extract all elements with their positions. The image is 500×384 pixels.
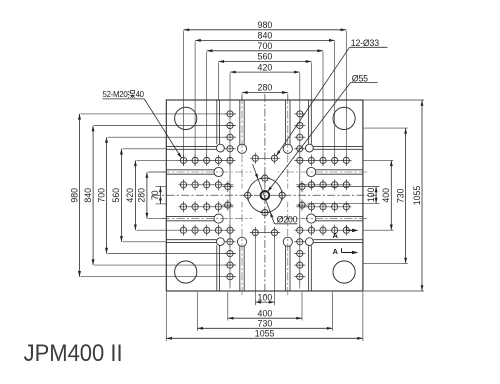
svg-text:A: A (332, 231, 338, 240)
svg-text:280: 280 (137, 188, 147, 203)
row line lower-right (row +3) (294, 229, 351, 231)
callout 12 holes dia 33 (276, 38, 387, 156)
row line mid-lower-left (row +1) (179, 206, 234, 208)
svg-text:40: 40 (136, 90, 145, 99)
dimension 1055 vertical (412, 100, 424, 291)
center hole (dia 55) (261, 191, 270, 200)
callout 52-M20 depth 40 tapped holes (103, 90, 182, 158)
T-slot top-left vertical (237, 96, 246, 189)
platen plate outline (166, 100, 363, 291)
bolt holes column +3 bottom leg (294, 239, 305, 280)
dimension 700 vertical (96, 137, 108, 253)
dimension 400 vertical (381, 160, 393, 230)
row line mid-upper-left (row -1) (179, 184, 234, 186)
svg-text:JPM400 II: JPM400 II (24, 340, 123, 367)
dimension 1055 horizontal (166, 329, 363, 340)
bolt holes row -1 left (180, 179, 221, 190)
dimension 100 horizontal (255, 292, 274, 303)
svg-text:A: A (332, 247, 338, 256)
row line upper-left (row -3) (179, 159, 236, 161)
row line mid-upper-right (row -1) (296, 184, 351, 186)
svg-text:700: 700 (96, 188, 106, 203)
dimension 70 vertical (150, 187, 162, 204)
bolt holes column -3 bottom leg (224, 239, 235, 280)
row line center pair top (250, 157, 280, 159)
T-slot left lower horizontal (162, 214, 252, 223)
extension lines right dimensions (308, 100, 425, 291)
svg-text:12-Ø33: 12-Ø33 (351, 38, 379, 48)
corner groove bottom-right (L-slot) (306, 238, 363, 291)
offset bolt holes inner columns (222, 181, 307, 211)
dimension 730 horizontal (197, 319, 332, 330)
bolt holes column +3 top leg (294, 111, 305, 152)
ring hole bottom (260, 208, 270, 218)
extension lines left dimension rows (81, 114, 237, 277)
bolt holes row +1 right (308, 201, 349, 212)
corner groove top-right (L-slot) (306, 100, 363, 152)
bolt holes row +3 left (180, 225, 233, 236)
svg-text:Ø55: Ø55 (352, 73, 368, 83)
svg-text:70: 70 (150, 190, 160, 200)
svg-text:400: 400 (381, 188, 391, 203)
svg-text:Ø200: Ø200 (277, 214, 298, 224)
vertical centerline (264, 94, 266, 298)
svg-text:1055: 1055 (412, 186, 422, 206)
svg-text:1055: 1055 (255, 329, 275, 339)
dimension 420 horizontal (230, 62, 300, 73)
svg-text:100: 100 (258, 292, 273, 302)
bolt holes row +3 right (297, 225, 350, 236)
svg-text:980: 980 (69, 188, 79, 203)
svg-text:560: 560 (258, 52, 273, 62)
section mark A upper (332, 226, 358, 240)
svg-text:700: 700 (258, 41, 273, 51)
bolt holes row -3 left (180, 155, 233, 166)
svg-text:980: 980 (258, 20, 273, 30)
horizontal centerline (152, 194, 377, 196)
callout dia 55 center hole (267, 73, 377, 192)
svg-text:52-M20: 52-M20 (103, 90, 129, 99)
dimension 560 vertical (111, 149, 123, 242)
dimension 980 horizontal (184, 20, 347, 31)
dimension 840 horizontal (195, 31, 335, 42)
dimension 100 vertical (366, 187, 378, 204)
row line upper-right (row -3) (294, 159, 351, 161)
callout dia 200 ring (253, 164, 298, 224)
svg-text:730: 730 (395, 188, 405, 203)
row line mid-lower-right (row +1) (296, 206, 351, 208)
svg-text:730: 730 (258, 319, 273, 329)
locating ring circle (dia 200) (248, 178, 282, 212)
svg-text:560: 560 (111, 188, 121, 203)
svg-text:100: 100 (366, 188, 376, 203)
row line center pair bottom (250, 232, 280, 234)
svg-text:420: 420 (125, 188, 135, 203)
extension lines top dimension columns (184, 31, 347, 289)
svg-text:420: 420 (258, 62, 273, 72)
corner groove bottom-left (L-slot) (166, 238, 224, 291)
bolt holes row +1 left (180, 201, 221, 212)
bolt holes row -1 right (308, 179, 349, 190)
tie-bar hole bottom-left (175, 261, 197, 283)
extension lines bottom dimensions (166, 238, 363, 341)
dimension 840 vertical (83, 126, 95, 266)
svg-text:400: 400 (258, 308, 273, 318)
tie-bar hole bottom-right (333, 261, 355, 283)
row line lower-left (row +3) (179, 229, 236, 231)
T-slot left upper horizontal (162, 167, 252, 176)
svg-text:840: 840 (83, 188, 93, 203)
dimension 980 vertical (69, 114, 81, 277)
T-slot top-right vertical (283, 96, 292, 189)
dimension 280 vertical (137, 172, 149, 219)
dimension 280 horizontal (242, 83, 288, 94)
bolt holes row -3 right (297, 155, 350, 166)
T-slot bottom-right vertical (283, 202, 292, 295)
section mark A lower (332, 247, 358, 256)
ring hole right (277, 190, 287, 200)
T-slot right upper horizontal (278, 167, 367, 176)
T-slot bottom-left vertical (237, 202, 246, 295)
dimension 560 horizontal (218, 52, 311, 63)
dimension 420 vertical (125, 160, 137, 230)
corner groove top-left (L-slot) (166, 100, 224, 152)
center pair holes top (252, 153, 277, 164)
bolt holes column -3 top leg (224, 111, 235, 152)
tie-bar hole top-left (175, 107, 197, 129)
dimension 400 horizontal (228, 308, 302, 319)
dimension 700 horizontal (207, 41, 323, 52)
T-slot right lower horizontal (278, 214, 367, 223)
svg-text:840: 840 (258, 31, 273, 41)
center pair holes bottom (252, 227, 277, 238)
tie-bar hole top-right (333, 107, 355, 129)
svg-text:280: 280 (258, 83, 273, 93)
ring hole left (243, 190, 253, 200)
ring hole top (260, 173, 270, 183)
dimension 730 vertical (395, 128, 407, 263)
